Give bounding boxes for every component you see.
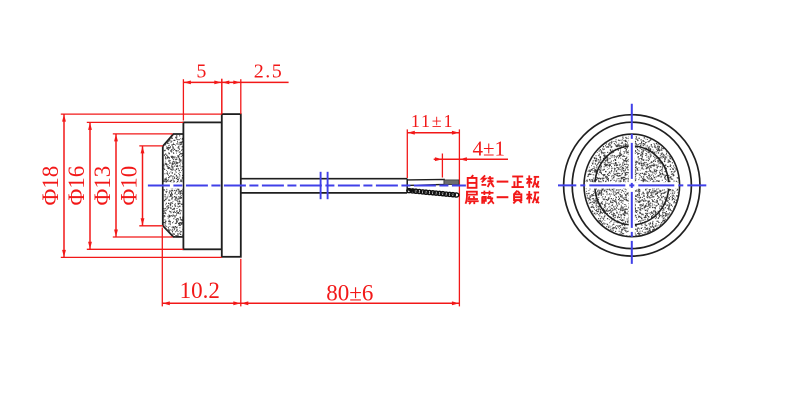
centerline white clearance (585, 136, 679, 236)
svg-text:Φ13: Φ13 (90, 166, 115, 206)
front view: inner circle Phi10 (595, 146, 669, 225)
dimension Phi13 (90, 134, 173, 237)
svg-text:4±1: 4±1 (473, 136, 506, 160)
side view: flange Phi18 (222, 114, 241, 257)
side view: body Phi16 (183, 122, 221, 249)
label: shield - negative (466, 191, 540, 205)
front view centerline horizontal (558, 184, 706, 186)
label: white wire - positive (468, 175, 539, 188)
dimension Phi18 (38, 114, 222, 257)
svg-text:2.5: 2.5 (254, 60, 284, 82)
front view: outer circle Phi18 (564, 115, 700, 256)
svg-text:Φ16: Φ16 (64, 166, 89, 206)
svg-text:80±6: 80±6 (326, 280, 373, 305)
bare conductor tip (444, 180, 459, 185)
shield braid (negative) (407, 189, 459, 198)
dimension Phi16 (64, 122, 183, 249)
white wire (positive lead) (407, 179, 444, 185)
front view centerline vertical (631, 104, 633, 264)
dimension 5 / 2.5 (top) (183, 60, 288, 120)
svg-text:Φ18: Φ18 (38, 166, 63, 206)
axis white clearance through face (164, 182, 183, 188)
front view: stippled face Phi13 (584, 134, 680, 237)
cable jacket (241, 179, 407, 193)
dimension Phi10 (117, 146, 163, 226)
axis centerline (side view) (148, 184, 466, 186)
dimension 4+-1 tick (441, 154, 443, 178)
side view: transducer face (stippled, Phi13/Phi10 chamfered) (163, 134, 184, 238)
dimension 11+-1 left extension (406, 129, 408, 178)
dimension 4+-1 (434, 136, 508, 161)
svg-text:5: 5 (196, 61, 206, 83)
front view: circle Phi16 (572, 122, 691, 248)
dimension 11+-1 (407, 111, 459, 135)
dimension 10.2 / 80+-6 (bottom) (162, 228, 459, 307)
svg-text:10.2: 10.2 (180, 278, 220, 303)
shared right extension line (to wire end) (458, 129, 460, 306)
svg-text:11±1: 11±1 (411, 111, 454, 131)
svg-text:Φ10: Φ10 (117, 166, 142, 206)
cable break marks (320, 172, 322, 199)
